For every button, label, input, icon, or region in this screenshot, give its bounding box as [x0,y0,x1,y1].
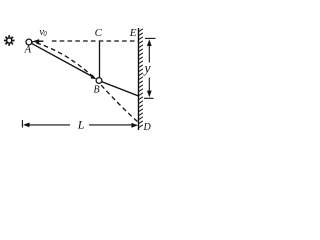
circle A [26,39,32,45]
y dimension up arrow [147,39,152,46]
solid displacement line A to B with arrowhead at B [31,43,92,76]
dashed horizontal line A to E [52,40,139,42]
wall hatching [139,29,143,128]
vertical line C to B [99,42,101,78]
L dimension left arrow [23,123,30,128]
svg-text:0: 0 [43,31,47,38]
svg-text:L: L [77,117,85,131]
solid ray B to wall [102,82,139,96]
dashed trajectory A to B to D [32,42,138,122]
circle B [96,78,102,84]
v0 arrow (head pointing left at A) [32,39,39,44]
y dimension bottom tick [144,97,154,99]
wall line [138,28,140,130]
y dimension down arrow [148,78,150,93]
svg-text:y: y [143,60,151,75]
L dimension right arrow [89,124,133,126]
sun [4,35,15,46]
L dimension left tick [21,120,23,128]
svg-text:A: A [24,45,32,56]
svg-text:E: E [129,27,137,39]
svg-text:B: B [94,84,100,95]
svg-text:C: C [95,27,103,39]
y dimension top tick [145,37,156,39]
svg-text:D: D [143,122,152,133]
